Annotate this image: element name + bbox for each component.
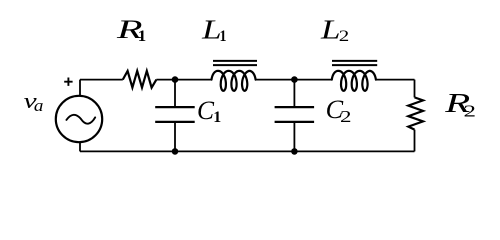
resistor R2 [408,97,423,129]
capacitor C1 bottom lead [174,123,176,151]
capacitor C2 plates [275,107,315,122]
svg-text:1: 1 [220,28,227,45]
svg-text:L: L [201,14,222,45]
wire: R1 to L1 [156,79,211,81]
wire: top rail, source corner to R1 [80,79,123,81]
inductor L1 coil [212,71,256,91]
voltage source va: sine wave [66,115,95,124]
wire: bottom rail [80,150,415,152]
voltage source va: plus sign [64,78,72,86]
inductor L1 core bars [213,61,257,65]
capacitor C2 top lead [293,80,295,106]
voltage source va: circle [56,96,102,142]
svg-text:1: 1 [138,28,147,45]
capacitor C1 plates [155,107,195,122]
wire: R2 down to bottom rail [414,130,416,152]
voltage source va: top stub wire [79,80,81,96]
resistor R1 [123,71,157,88]
node A junction dot [172,76,179,83]
inductor L2 core bars [332,61,377,65]
svg-text:L: L [320,14,341,45]
capacitor C1 top lead [174,80,176,106]
svg-text:a: a [34,96,44,115]
capacitor C2 bottom lead [293,123,295,151]
voltage source va: bottom stub wire [79,143,81,152]
wire: right rail down to R2 [414,80,416,98]
svg-text:1: 1 [213,109,221,126]
svg-text:2: 2 [464,102,477,121]
svg-text:C: C [197,96,215,125]
svg-text:2: 2 [339,28,350,45]
inductor L2 coil [332,71,376,91]
wire: L1 to L2 [256,79,332,81]
wire: L2 to right corner [376,79,415,81]
node B junction dot [291,76,298,83]
node: C1 bottom junction dot [172,148,179,155]
svg-text:2: 2 [340,107,352,126]
node: C2 bottom junction dot [291,148,298,155]
